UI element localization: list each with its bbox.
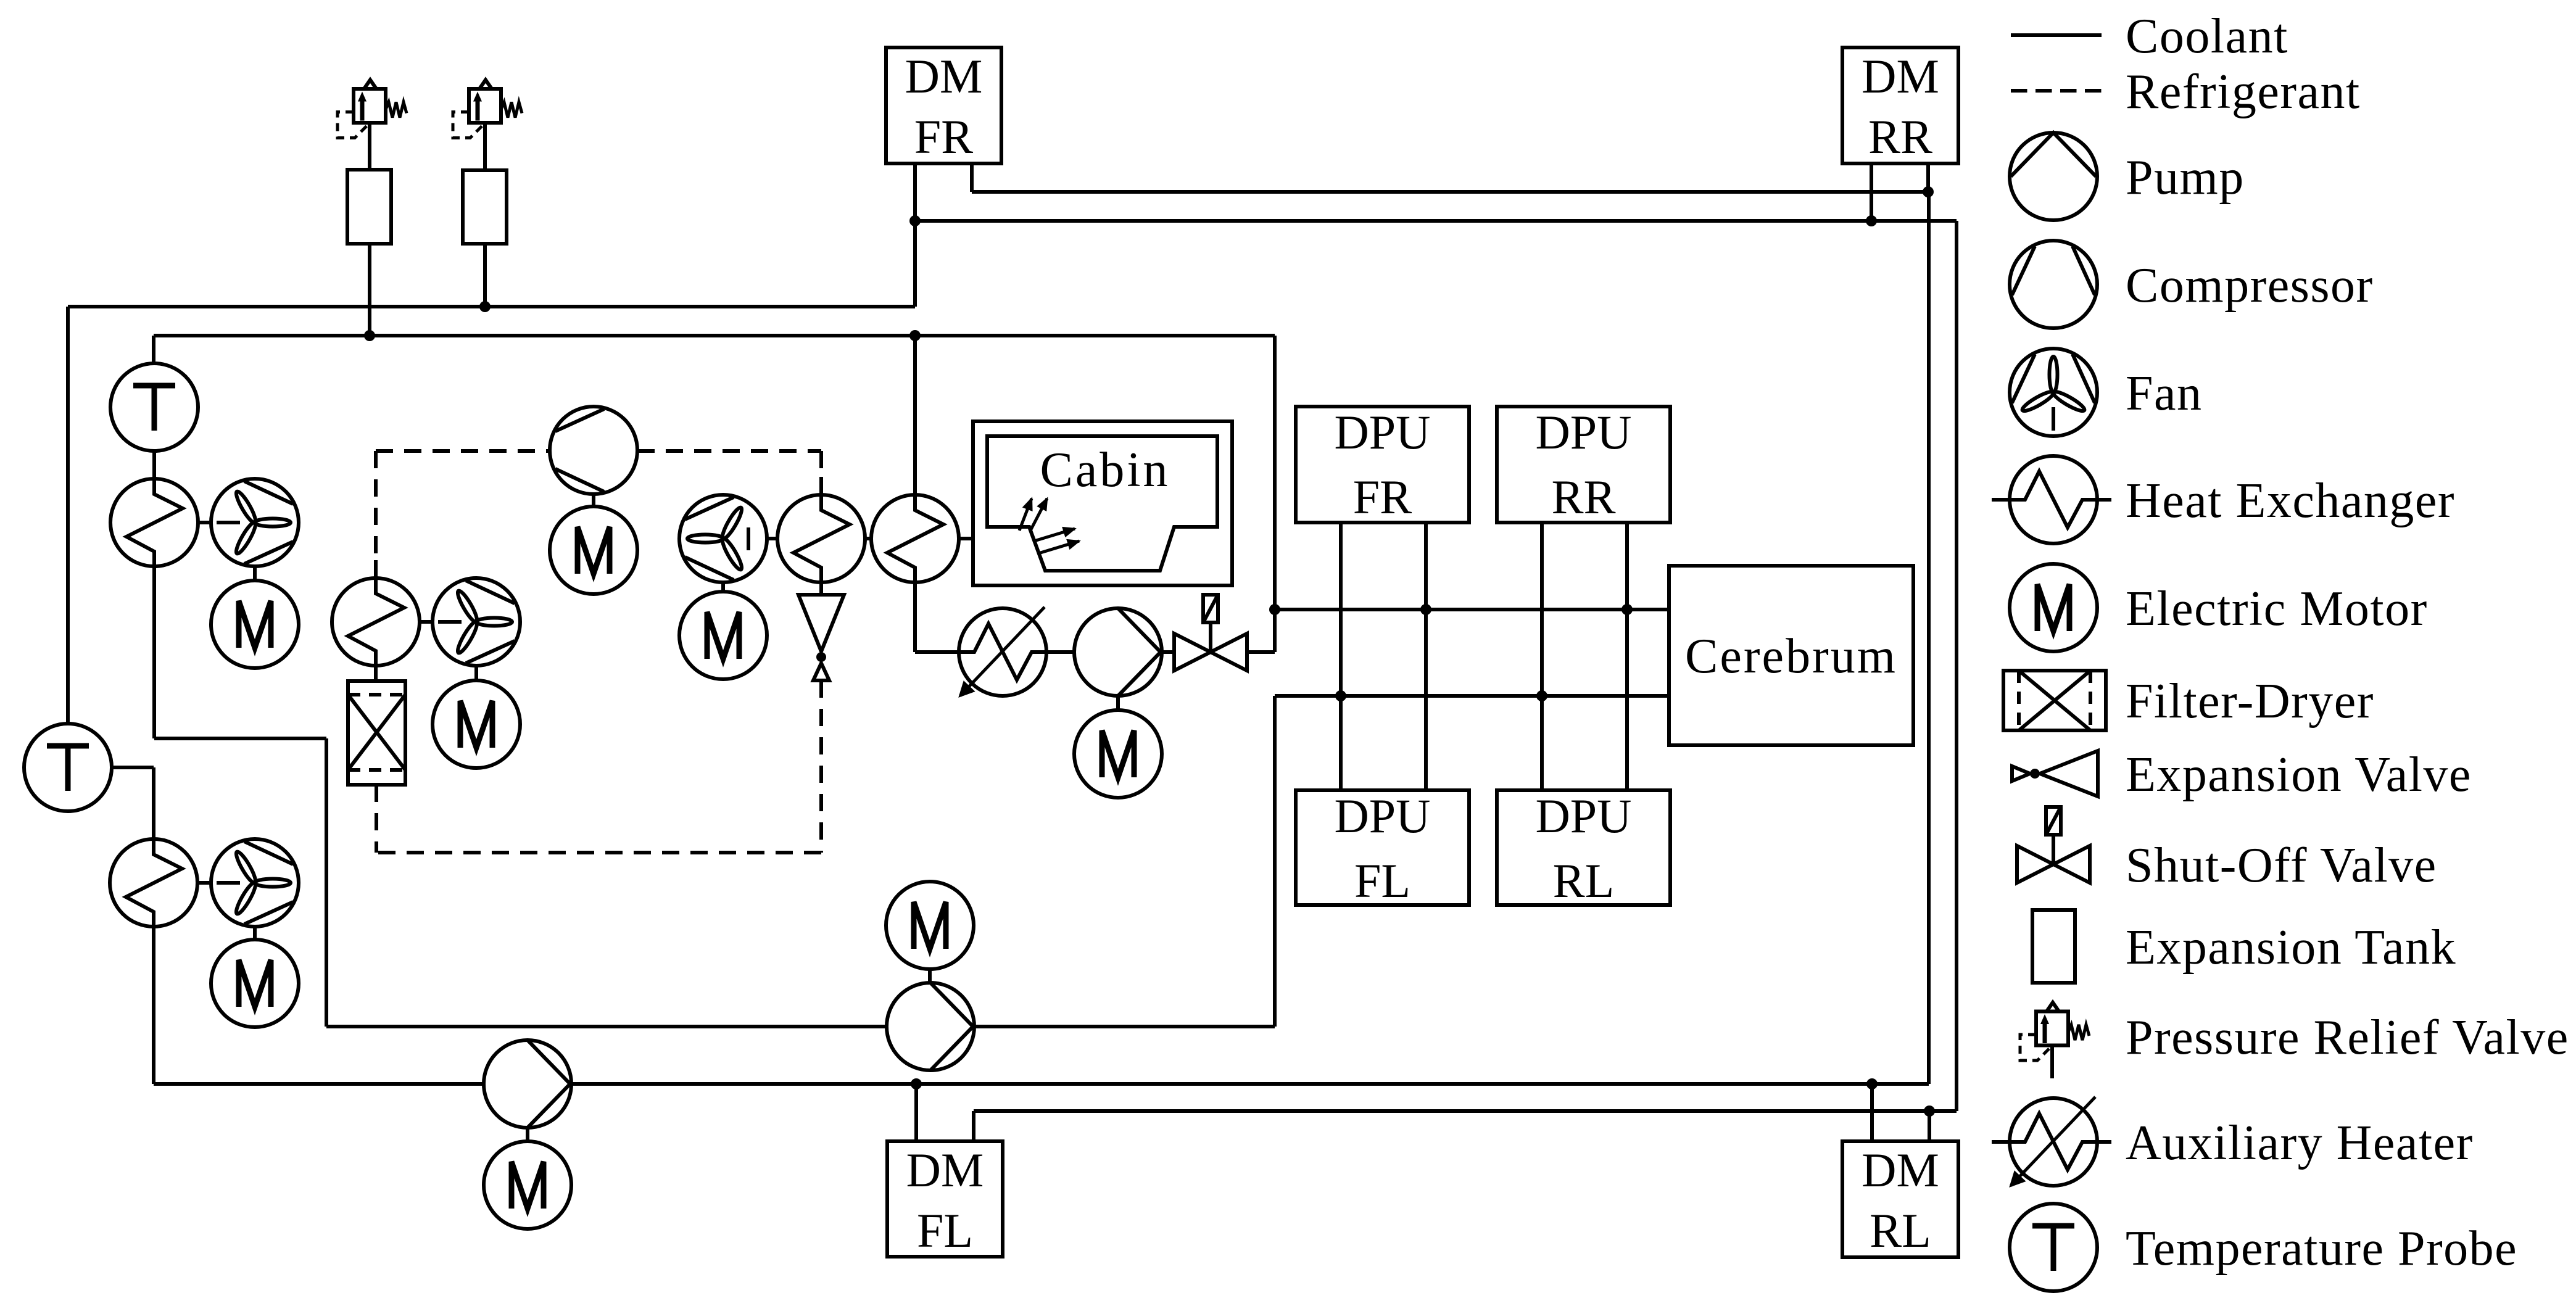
auxiliary heater AH1 xyxy=(941,607,1061,696)
wire HX5-cabin link xyxy=(959,537,973,540)
wire cabin HX to heater corner xyxy=(913,567,917,652)
wire DPU RR right pin xyxy=(1625,523,1629,610)
legend label Electric Motor xyxy=(2126,582,2428,636)
wire corner up to bus2 xyxy=(1273,696,1277,1027)
svg-text:DM: DM xyxy=(1862,49,1939,103)
cabin outer box xyxy=(973,421,1232,585)
wire compressor motor link xyxy=(592,494,595,507)
node DM RL right xyxy=(1924,1106,1935,1117)
pressure relief valve PRV1 xyxy=(338,80,407,138)
wire control bus 2 xyxy=(1275,694,1669,698)
fan F1 xyxy=(211,479,299,566)
wire control bus 1 xyxy=(1275,608,1669,611)
wire P2 motor link xyxy=(928,969,932,983)
box DPU FR xyxy=(1296,405,1469,524)
wire left mid vertical xyxy=(325,738,328,1027)
svg-text:Filter-Dryer: Filter-Dryer xyxy=(2126,674,2374,729)
shut-off valve SV1 xyxy=(1174,595,1247,671)
expansion valve EV1 xyxy=(798,595,844,680)
svg-text:Pressure Relief Valve: Pressure Relief Valve xyxy=(2126,1010,2569,1065)
legend label Shut-Off Valve xyxy=(2126,838,2437,893)
legend label Pump xyxy=(2126,151,2245,205)
node tank2 tap xyxy=(479,301,491,312)
svg-text:Cerebrum: Cerebrum xyxy=(1685,629,1897,684)
wire cabin loop down xyxy=(913,336,917,510)
wire fan4 motor link xyxy=(253,927,257,940)
wire HX1 corner right xyxy=(154,737,326,740)
compressor K1 xyxy=(550,407,637,494)
svg-text:DPU: DPU xyxy=(1334,789,1430,843)
wire to pump P2 xyxy=(326,1025,887,1028)
svg-text:RR: RR xyxy=(1551,470,1615,524)
fan F2 xyxy=(433,578,520,666)
node cabin branch xyxy=(909,330,921,341)
wire P3 motor link xyxy=(1116,696,1120,711)
wire aux heater to pump P3 xyxy=(1046,650,1074,654)
legend symbol filter-dryer xyxy=(2003,671,2106,730)
legend label Pressure Relief Valve xyxy=(2126,1010,2569,1065)
electric motor M6 xyxy=(679,592,767,679)
svg-text:DM: DM xyxy=(906,1143,984,1197)
electric motor M4 xyxy=(211,940,299,1027)
legend label Heat Exchanger xyxy=(2126,474,2455,528)
svg-text:Cabin: Cabin xyxy=(1040,443,1170,497)
wire HX1 down xyxy=(152,551,156,738)
refrigerant line HX4 feed xyxy=(819,451,823,495)
refrigerant line top left xyxy=(376,449,550,453)
heat exchanger HX3 (evaporator) xyxy=(332,560,420,680)
wire HX4 to expansion valve xyxy=(819,582,823,595)
svg-text:Pump: Pump xyxy=(2126,151,2245,205)
node DM RR left xyxy=(1866,215,1877,226)
wire tank1 to bus xyxy=(368,244,371,336)
svg-text:Temperature Probe: Temperature Probe xyxy=(2126,1221,2517,1276)
electric motor M5 xyxy=(550,506,637,594)
legend symbol expansion valve xyxy=(2012,751,2098,796)
svg-text:Electric Motor: Electric Motor xyxy=(2126,582,2428,636)
temperature probe T2 xyxy=(24,724,112,811)
wire DM FL right pin xyxy=(972,1111,975,1141)
node tank1 tap xyxy=(364,330,375,341)
shut-off valve legend xyxy=(2017,807,2090,883)
electric motor M7 xyxy=(1074,710,1162,798)
refrigerant line top right xyxy=(637,449,821,453)
wire HX3-fan2 link xyxy=(419,620,433,624)
legend label Expansion Valve xyxy=(2126,748,2472,802)
svg-text:DM: DM xyxy=(905,49,983,103)
wire DPU FL right pin xyxy=(1424,610,1428,790)
refrigerant line bottom xyxy=(376,851,821,854)
refrigerant line FD outlet xyxy=(375,785,378,853)
legend line coolant xyxy=(2011,33,2102,37)
wire T2 right stub xyxy=(111,766,154,769)
wire HX4-HX5 link xyxy=(865,537,872,540)
fan F4 xyxy=(211,839,299,927)
svg-text:DPU: DPU xyxy=(1535,405,1631,459)
box DPU RR xyxy=(1497,405,1670,524)
temperature probe legend xyxy=(2010,1204,2097,1291)
wire DPU RR left pin xyxy=(1540,523,1544,696)
wire P1 motor link xyxy=(526,1127,529,1142)
svg-text:Refrigerant: Refrigerant xyxy=(2126,65,2361,119)
filter-dryer FD1 xyxy=(348,681,405,785)
wire second top bus xyxy=(915,219,1957,223)
heat exchanger HX2 (rear radiator) xyxy=(110,821,197,941)
electric motor M9 xyxy=(886,882,974,969)
node DM FL tap xyxy=(911,1078,922,1089)
wire T1 to HX1 xyxy=(152,450,156,494)
pressure relief valve PRV2 xyxy=(453,80,522,138)
wire DM RR left pin xyxy=(1870,163,1873,221)
wire DM RL right pin xyxy=(1928,1111,1931,1141)
wire P3 to valve xyxy=(1162,650,1175,654)
box DM RR xyxy=(1842,48,1958,163)
node DM FR left xyxy=(909,215,921,226)
svg-text:DPU: DPU xyxy=(1535,789,1631,843)
fan F3 xyxy=(679,495,767,582)
legend label Fan xyxy=(2126,366,2203,421)
wire DM FR left pin xyxy=(913,163,917,307)
temperature probe T1 xyxy=(110,363,198,451)
legend symbol auxiliary heater xyxy=(1992,1097,2111,1186)
wire DPU RL left pin xyxy=(1540,696,1544,790)
svg-text:Fan: Fan xyxy=(2126,366,2203,421)
legend symbol fan xyxy=(2010,349,2097,436)
node bus1 left xyxy=(1269,604,1280,615)
node DM RL left xyxy=(1866,1078,1878,1089)
node DPU RR right pin xyxy=(1621,604,1633,615)
svg-text:FR: FR xyxy=(914,110,973,163)
wire DPU FL left pin xyxy=(1339,696,1343,790)
wire P1 to right riser xyxy=(571,1082,1929,1086)
wire right riser 1 xyxy=(1927,192,1931,1084)
refrigerant line EV down xyxy=(819,680,823,853)
electric motor M1 xyxy=(211,581,299,668)
legend label Temperature Probe xyxy=(2126,1221,2517,1276)
wire HX2 down xyxy=(152,911,155,1084)
legend symbol compressor xyxy=(2010,241,2097,328)
box DM RL xyxy=(1842,1141,1958,1257)
svg-text:DPU: DPU xyxy=(1334,405,1430,459)
legend label Filter-Dryer xyxy=(2126,674,2374,729)
legend symbol expansion tank xyxy=(2032,910,2075,983)
node DM RR right xyxy=(1923,186,1934,197)
box DM FR xyxy=(886,48,1001,163)
wire HX1-fan1 link xyxy=(198,521,211,524)
expansion tank ET1 xyxy=(347,170,391,244)
wire DPU FR right pin xyxy=(1424,523,1428,610)
wire DPU RL right pin xyxy=(1625,610,1629,790)
legend label Coolant xyxy=(2126,9,2288,64)
heat exchanger HX4 (condenser) xyxy=(777,477,865,597)
heat exchanger HX1 (front radiator) xyxy=(110,461,198,581)
wire valve to riser xyxy=(1247,650,1275,654)
svg-text:FL: FL xyxy=(1354,854,1410,907)
legend label Refrigerant xyxy=(2126,65,2361,119)
wire fan1 motor link xyxy=(253,566,257,581)
pressure relief valve legend xyxy=(2020,1002,2089,1078)
heat exchanger HX5 (cabin heater core) xyxy=(871,477,959,597)
node DPU FR right pin xyxy=(1420,604,1431,615)
svg-text:Compressor: Compressor xyxy=(2126,258,2374,313)
legend line refrigerant xyxy=(2011,89,2102,93)
box DPU FL xyxy=(1296,789,1469,907)
wire DM RL left pin xyxy=(1870,1084,1874,1141)
wire outer left vertical xyxy=(66,307,70,724)
pump P1 xyxy=(484,1040,571,1128)
node DPU FR left pin xyxy=(1335,690,1346,701)
svg-text:RR: RR xyxy=(1868,110,1932,163)
svg-text:DM: DM xyxy=(1862,1143,1939,1197)
wire T2 corner down to HX2 xyxy=(152,767,155,854)
svg-text:Shut-Off Valve: Shut-Off Valve xyxy=(2126,838,2437,893)
wire DM RR right pin xyxy=(1926,163,1930,192)
wire PRV1 to tank1 xyxy=(368,123,371,170)
svg-text:Auxiliary Heater: Auxiliary Heater xyxy=(2126,1116,2474,1170)
svg-text:Heat Exchanger: Heat Exchanger xyxy=(2126,474,2455,528)
wire corner to aux heater xyxy=(915,650,959,654)
wire HX3 to filter-dryer xyxy=(374,666,378,681)
wire bottom to pump P1 xyxy=(154,1082,484,1086)
svg-text:Expansion Valve: Expansion Valve xyxy=(2126,748,2472,802)
svg-text:FL: FL xyxy=(917,1204,973,1257)
wire tank2 to bus xyxy=(483,244,487,307)
wire PRV2 to tank2 xyxy=(483,123,487,170)
legend symbol heat exchanger xyxy=(1992,456,2111,543)
wire DM FL left pin xyxy=(914,1084,918,1141)
refrigerant line HX3 feed xyxy=(374,451,378,578)
wire outer top (coolant) xyxy=(68,305,915,308)
svg-text:Expansion Tank: Expansion Tank xyxy=(2126,920,2456,975)
electric motor M2 xyxy=(433,680,520,768)
cabin air flow arrows xyxy=(1019,498,1079,553)
wire cabin riser xyxy=(1273,336,1277,652)
wire fan3 motor link xyxy=(721,582,725,592)
wire P2 to corner xyxy=(974,1025,1275,1028)
svg-text:RL: RL xyxy=(1553,854,1615,907)
cabin inner profile xyxy=(987,436,1217,571)
wire DM FR-DM RR top bus xyxy=(972,190,1928,194)
wire bottom bus 2 xyxy=(974,1109,1957,1113)
box Cerebrum xyxy=(1669,566,1913,745)
wire HX2-fan4 link xyxy=(197,881,211,885)
pump P2 xyxy=(887,983,974,1070)
wire T1 feed xyxy=(152,336,155,364)
svg-text:RL: RL xyxy=(1870,1204,1931,1257)
pump P3 xyxy=(1074,608,1162,696)
wire DPU FR left pin xyxy=(1339,523,1343,696)
wire right riser 2 xyxy=(1955,221,1958,1111)
wire inner top (coolant) xyxy=(154,334,1275,337)
wire DM FR right pin xyxy=(970,163,974,192)
expansion tank ET2 xyxy=(463,170,507,244)
legend symbol pump xyxy=(2010,133,2097,220)
legend label Auxiliary Heater xyxy=(2126,1116,2474,1170)
svg-text:FR: FR xyxy=(1353,470,1412,524)
legend label Expansion Tank xyxy=(2126,920,2456,975)
node DPU RR left pin xyxy=(1536,690,1547,701)
legend label Compressor xyxy=(2126,258,2374,313)
wire fan3-HX4 link xyxy=(767,537,777,540)
electric motor M8 xyxy=(484,1141,571,1229)
box DPU RL xyxy=(1497,789,1670,907)
box DM FL xyxy=(887,1141,1003,1257)
wire fan2 motor link xyxy=(474,666,478,681)
legend symbol electric motor xyxy=(2010,564,2097,651)
svg-text:Coolant: Coolant xyxy=(2126,9,2288,64)
